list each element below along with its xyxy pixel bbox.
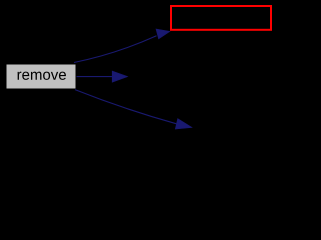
node remove (grey box) (6, 64, 76, 89)
arrowhead bottom (175, 119, 192, 129)
node truncated (red box) (171, 6, 271, 30)
arrowhead middle (112, 71, 127, 82)
edge remove->bottom node (75, 90, 177, 124)
arrowhead top (156, 29, 170, 39)
edge remove->red node (top) (74, 36, 157, 63)
edge remove->middle node (77, 76, 114, 78)
